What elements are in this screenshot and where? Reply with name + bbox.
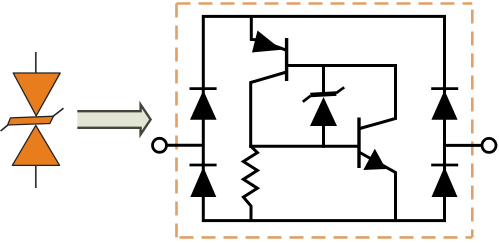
left terminal wire — [167, 144, 204, 147]
gate wire (mid horizontal) — [249, 145, 359, 148]
TVS middle bar parallelogram — [8, 116, 54, 125]
diode D3 upper-right triangle — [431, 90, 457, 120]
diode D2 lower-left triangle — [190, 167, 216, 197]
transistor Q1 emitter arrow — [252, 31, 282, 53]
resistor R1 zigzag — [243, 146, 257, 220]
TVS bar right tail — [53, 108, 64, 117]
diode D2 lower-left bar — [190, 164, 217, 167]
transistor Q1 base bar — [285, 38, 288, 81]
diode D4 lower-right triangle — [432, 167, 458, 197]
diode D1 upper-left triangle — [190, 90, 217, 120]
wire Q1 base to Q2 collector — [287, 66, 396, 129]
zener Z1 bar right tail — [336, 87, 344, 93]
diode D1 upper-left bar — [190, 87, 217, 90]
diode D3 upper-right bar — [431, 87, 458, 90]
transistor Q2 emitter arrow — [363, 149, 386, 170]
transistor Q2 emitter lead to bottom wire — [360, 153, 396, 221]
TVS top triangle — [13, 73, 60, 116]
transistor Q1 emitter lead from top wire — [251, 16, 286, 50]
TVS bottom triangle — [12, 125, 59, 165]
TVS bottom lead wire — [35, 165, 37, 188]
TVS bar left tail — [1, 125, 9, 132]
transistor Q1 collector lead — [251, 72, 287, 148]
zener Z1 bottom lead — [322, 126, 325, 148]
diode D4 lower-right bar — [431, 164, 458, 167]
transistor Q2 base bar — [357, 118, 360, 169]
right terminal wire — [445, 144, 483, 147]
outer circuit loop wire — [203, 16, 444, 220]
zener Z1 triangle — [310, 97, 337, 126]
right terminal circle — [482, 138, 496, 152]
TVS top lead wire — [35, 52, 37, 74]
block arrow — [77, 105, 150, 135]
left terminal circle — [153, 138, 167, 152]
zener Z1 top lead — [322, 66, 325, 95]
zener Z1 cathode bar — [310, 94, 336, 95]
dashed enclosure box — [177, 4, 473, 238]
zener Z1 bar left tail — [303, 96, 311, 102]
